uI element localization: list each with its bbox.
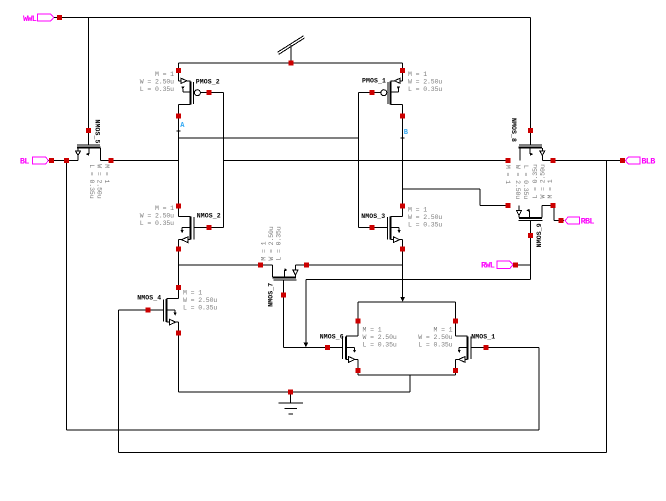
wire WWL right column to NMOS_6 gate	[530, 18, 532, 145]
label NMOS_9	[536, 223, 543, 247]
power vdd symbol	[278, 36, 305, 66]
wire NMOS_8 to BLB pin	[542, 160, 622, 162]
wire left gate column vertical	[223, 93, 225, 228]
svg-text:W = 2.50u: W = 2.50u	[95, 164, 102, 198]
wire NMOS_1 gate to right feedback column	[486, 346, 539, 348]
transistor NMOS_5	[64, 128, 114, 163]
svg-text:BLB: BLB	[641, 157, 655, 167]
label PMOS_2	[196, 79, 220, 86]
svg-text:W = 2.50u: W = 2.50u	[140, 78, 174, 85]
wire BL loop column	[66, 161, 68, 431]
wire BLB loop bottom rail	[119, 451, 607, 453]
pin RWL	[481, 261, 518, 271]
wire cross-couple node A to right gates	[179, 137, 359, 139]
transistor PMOS_1	[370, 68, 405, 118]
wire node B to NMOS_9 drain	[403, 189, 508, 205]
svg-text:L = 0.35u: L = 0.35u	[183, 305, 217, 312]
wire NMOS_9 source to RBL	[542, 205, 564, 220]
svg-text:NMOS_6: NMOS_6	[320, 334, 344, 341]
pin WWL	[23, 14, 62, 24]
wire node B column upper	[402, 105, 404, 217]
svg-text:RWL: RWL	[481, 261, 495, 271]
svg-text:W = 2.50u: W = 2.50u	[408, 214, 442, 221]
svg-text:NMOS_3: NMOS_3	[361, 213, 385, 220]
pin BL	[20, 157, 54, 167]
svg-text:M = 1: M = 1	[363, 327, 382, 334]
svg-text:M = 1: M = 1	[155, 205, 174, 212]
svg-text:RBL: RBL	[581, 217, 595, 227]
wire node A column upper	[178, 105, 180, 217]
wire NMOS_7 source to node B column	[295, 264, 402, 266]
svg-text:L = 0.35u: L = 0.35u	[522, 165, 529, 199]
wire NMOS_7 gate to NMOS_6 gate	[284, 295, 343, 347]
wire NMOS_3 gate to right gate column	[359, 227, 373, 229]
node A	[177, 122, 186, 131]
svg-text:M = 1: M = 1	[504, 165, 511, 184]
svg-text:NMOS_9: NMOS_9	[536, 223, 543, 247]
label NMOS_8	[510, 118, 517, 142]
svg-text:L = 0.35u: L = 0.35u	[532, 164, 539, 198]
wire VDD to PMOS_2 source	[178, 63, 180, 71]
value label NMOS_9 params	[532, 164, 554, 198]
transistor NMOS_3	[370, 203, 405, 251]
value label NMOS_6 params	[363, 327, 397, 349]
wire VDD to PMOS_1 source	[402, 63, 404, 71]
junction markers overlay	[49, 15, 625, 394]
svg-text:M = 1: M = 1	[183, 289, 202, 296]
svg-text:L = 0.35u: L = 0.35u	[140, 220, 174, 227]
svg-text:NMOS_8: NMOS_8	[510, 118, 517, 142]
wire VDD rail	[179, 62, 403, 64]
svg-text:W = 2.50u: W = 2.50u	[363, 334, 397, 341]
svg-text:W = 2.50u: W = 2.50u	[140, 213, 174, 220]
svg-text:NMOS_7: NMOS_7	[268, 283, 275, 307]
wire cross-couple node B to left gates	[224, 160, 508, 162]
svg-text:NMOS_1: NMOS_1	[471, 334, 495, 341]
transistor NMOS_9	[505, 203, 555, 238]
value label PMOS_2 params	[140, 71, 174, 93]
label NMOS_5	[94, 120, 101, 144]
wire NMOS_5 to node A	[100, 160, 178, 162]
wire BL loop bottom rail	[67, 429, 540, 431]
label NMOS_2	[197, 212, 221, 219]
svg-text:L = 0.35u: L = 0.35u	[418, 342, 452, 349]
value label NMOS_3 params	[408, 207, 442, 229]
wire NMOS_2 source to NMOS_7 drain	[179, 264, 273, 266]
svg-text:L = 0.35u: L = 0.35u	[275, 226, 282, 260]
svg-text:PMOS_1: PMOS_1	[362, 78, 386, 85]
wire NMOS_9 gate column / RWL column	[530, 236, 532, 280]
label NMOS_6	[320, 334, 344, 341]
svg-text:W = 2.50u: W = 2.50u	[514, 165, 521, 199]
svg-text:NMOS_4: NMOS_4	[137, 295, 161, 302]
svg-text:M = 1: M = 1	[408, 207, 427, 214]
wire right feedback column (BL loop)	[538, 347, 540, 430]
svg-text:L = 0.35u: L = 0.35u	[408, 86, 442, 93]
wire ground rail	[179, 391, 410, 393]
wire RWL pin to column	[513, 264, 531, 266]
value label NMOS_4 params	[183, 289, 217, 311]
label NMOS_4	[137, 295, 161, 302]
transistor NMOS_1	[453, 318, 488, 372]
wire BL to NMOS_5	[49, 160, 78, 162]
wire PMOS_1 gate to right gate column	[359, 92, 373, 94]
label NMOS_3	[361, 213, 385, 220]
transistor NMOS_7	[258, 263, 309, 298]
label NMOS_1	[471, 334, 495, 341]
svg-text:PMOS_2: PMOS_2	[196, 79, 220, 86]
svg-text:BL: BL	[20, 157, 29, 167]
wire read pair drain rail	[358, 302, 456, 321]
wire NMOS_4 source to ground rail	[178, 333, 180, 392]
svg-text:L = 0.35u: L = 0.35u	[408, 222, 442, 229]
svg-text:M = 1: M = 1	[433, 327, 452, 334]
svg-text:M = 1: M = 1	[155, 71, 174, 78]
junction arrow RWL onto read gates	[303, 342, 308, 347]
svg-text:M = 1: M = 1	[260, 241, 267, 260]
label PMOS_1	[362, 78, 386, 85]
transistor PMOS_2	[176, 68, 211, 118]
transistor NMOS_4	[146, 285, 181, 335]
wire BLB loop right column	[606, 161, 608, 453]
svg-text:L = 0.35u: L = 0.35u	[363, 342, 397, 349]
wire node B column lower	[402, 240, 404, 301]
pin RBL	[558, 217, 594, 227]
value label NMOS_7 params	[260, 226, 282, 260]
wire right gate column vertical	[358, 93, 360, 228]
wire NMOS_2 gate to left gate column	[209, 227, 224, 229]
svg-text:M = 1: M = 1	[103, 164, 110, 183]
value label NMOS_5 params	[88, 164, 110, 198]
svg-text:L = 0.35u: L = 0.35u	[140, 86, 174, 93]
value label NMOS_2 params	[140, 205, 174, 227]
value label NMOS_8 params	[504, 165, 529, 199]
svg-text:NMOS_5: NMOS_5	[94, 120, 101, 144]
wire PMOS_2 gate to left gate column	[209, 92, 224, 94]
svg-text:W = 2.50u: W = 2.50u	[183, 297, 217, 304]
svg-text:WWL: WWL	[23, 14, 37, 24]
svg-text:M = 1: M = 1	[547, 179, 554, 198]
label NMOS_7	[268, 283, 275, 307]
wire read pair source rail	[358, 370, 456, 392]
pin BLB	[620, 157, 655, 167]
svg-text:W = 2.50u: W = 2.50u	[268, 226, 275, 260]
svg-text:NMOS_2: NMOS_2	[197, 212, 221, 219]
junction arrow node B onto read drains	[400, 297, 405, 302]
ground	[279, 389, 303, 414]
svg-text:W = 2.50u: W = 2.50u	[539, 164, 546, 198]
svg-text:W = 2.50u: W = 2.50u	[418, 334, 452, 341]
svg-text:W = 2.50u: W = 2.50u	[408, 78, 442, 85]
value label PMOS_1 params	[408, 71, 442, 93]
svg-text:L = 0.35u: L = 0.35u	[88, 164, 95, 198]
svg-text:M = 1: M = 1	[408, 71, 427, 78]
wire RWL feedback horizontal	[306, 279, 531, 281]
wire left loop column (BLB loop)	[118, 310, 120, 452]
wire WWL left column to NMOS_5 gate	[88, 18, 90, 145]
value label NMOS_1 params	[418, 327, 452, 349]
wire WWL rail	[54, 17, 530, 19]
wire node A/NMOS_2 source column lower	[178, 240, 180, 299]
transistor NMOS_2	[176, 203, 211, 251]
transistor NMOS_8	[506, 128, 556, 163]
node B	[401, 129, 409, 138]
wire NMOS_4 gate to left loop	[119, 309, 149, 311]
transistor NMOS_6	[325, 318, 360, 372]
wire RWL feedback drop	[305, 280, 307, 347]
